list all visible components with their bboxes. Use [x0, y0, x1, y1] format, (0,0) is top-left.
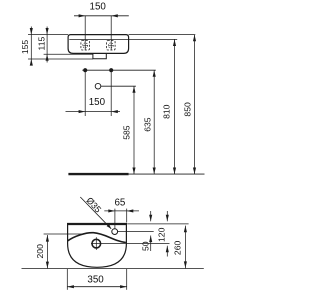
svg-text:65: 65 — [114, 198, 125, 209]
svg-text:635: 635 — [143, 117, 153, 132]
svg-text:850: 850 — [182, 102, 192, 117]
svg-text:150: 150 — [90, 1, 107, 12]
svg-text:200: 200 — [35, 244, 45, 259]
svg-text:810: 810 — [161, 104, 171, 119]
svg-text:115: 115 — [36, 37, 46, 51]
svg-text:150: 150 — [89, 97, 106, 108]
svg-text:50: 50 — [141, 241, 151, 251]
svg-text:120: 120 — [157, 227, 167, 242]
svg-text:155: 155 — [20, 40, 30, 55]
svg-text:350: 350 — [87, 274, 104, 285]
svg-text:585: 585 — [122, 125, 132, 140]
svg-text:260: 260 — [173, 241, 183, 256]
